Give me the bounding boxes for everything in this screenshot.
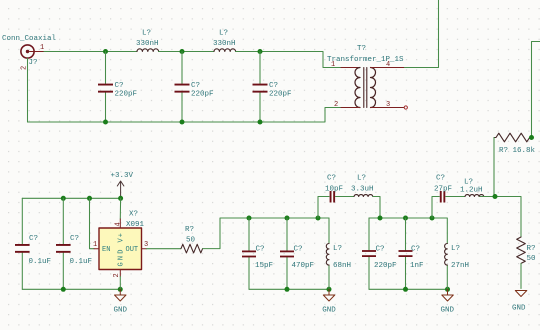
inductor L2 330nH [213, 30, 236, 52]
svg-text:C?: C? [191, 82, 200, 90]
wire L4 down to rail2 [373, 197, 380, 219]
svg-text:3.3uH: 3.3uH [351, 186, 374, 194]
svg-text:L?: L? [333, 245, 342, 253]
wire connector shield down [27, 58, 29, 122]
wire OUT to R3 [147, 248, 181, 250]
capacitor C3 220pF [253, 52, 292, 123]
node top rail junction 3 [258, 49, 263, 54]
ground R4 [512, 291, 527, 313]
svg-text:C?: C? [269, 82, 278, 90]
wire R2 left leg down [493, 138, 495, 197]
wire group1 bottom rail [249, 288, 329, 290]
wire R3 to filter rail [203, 218, 329, 249]
svg-text:J?: J? [29, 59, 38, 67]
series branch2 wire up [432, 197, 439, 219]
node rail2 junction c1n [403, 216, 408, 221]
wire bottom-left rail [22, 288, 120, 290]
wire C11 to L6 [446, 196, 465, 198]
svg-text:50: 50 [186, 237, 196, 245]
svg-text:220pF: 220pF [191, 91, 214, 99]
wire bottom rail top section [28, 108, 342, 123]
svg-text:X091: X091 [126, 221, 145, 229]
wire 3.3V rail [22, 197, 120, 199]
capacitor C4 0.1uF [15, 198, 51, 289]
node group2 bottom junction c1n [403, 287, 408, 292]
wire between inductors [159, 51, 214, 53]
wire rail to transformer corner [236, 52, 341, 68]
svg-text:4: 4 [114, 222, 122, 226]
wire L6 to node [480, 197, 521, 238]
node branch2 output [493, 194, 498, 199]
svg-text:X?: X? [129, 211, 138, 219]
svg-text:1.2uH: 1.2uH [460, 187, 483, 195]
regulator U1 X091 [93, 211, 148, 278]
inductor L6 1.2uH [460, 179, 484, 197]
capacitor C1 220pF [98, 52, 137, 123]
svg-text:330nH: 330nH [136, 40, 159, 48]
svg-text:R? 16.8k: R? 16.8k [499, 147, 536, 155]
node rail1 junction branch [316, 216, 321, 221]
connector J1 Conn_Coaxial [2, 35, 57, 70]
node rail2 junction branch1 [378, 216, 383, 221]
capacitor C9 220pF [362, 218, 397, 289]
node group1 bottom junction l68 [327, 287, 332, 292]
capacitor C8 10pF [325, 175, 343, 203]
wire transformer pin4 to top edge [405, 0, 439, 68]
svg-text:1: 1 [40, 44, 44, 52]
svg-text:T?: T? [357, 45, 366, 53]
svg-text:GND: GND [512, 305, 526, 313]
svg-text:4: 4 [386, 61, 390, 69]
svg-text:GND: GND [441, 307, 455, 315]
svg-text:C?: C? [256, 246, 265, 254]
node rail1 junction c15 [247, 216, 252, 221]
svg-text:1: 1 [93, 241, 97, 249]
svg-text:L?: L? [219, 30, 228, 38]
wire EN feed [90, 198, 95, 248]
svg-text:Transformer_1P_1S: Transformer_1P_1S [327, 56, 404, 64]
svg-text:2: 2 [113, 273, 121, 277]
node bottom-left junction c5 [61, 287, 66, 292]
svg-text:V+: V+ [117, 232, 125, 242]
svg-text:2: 2 [334, 101, 338, 109]
ground chip [114, 289, 128, 314]
svg-text:L?: L? [357, 175, 366, 183]
node bottom rail junction 1 [103, 120, 108, 125]
transformer T1 Transformer_1P_1S [327, 45, 407, 109]
svg-text:220pF: 220pF [374, 262, 397, 270]
svg-text:L?: L? [451, 245, 460, 253]
svg-text:L?: L? [142, 30, 151, 38]
node top rail junction 2 [180, 49, 185, 54]
svg-text:50: 50 [527, 255, 537, 263]
svg-text:C?: C? [327, 175, 336, 183]
svg-text:C?: C? [436, 175, 445, 183]
svg-text:1: 1 [331, 61, 335, 69]
svg-text:27pF: 27pF [434, 186, 452, 194]
svg-text:GND: GND [114, 307, 128, 315]
svg-text:10pF: 10pF [325, 186, 343, 194]
svg-text:0.1uF: 0.1uF [29, 258, 52, 266]
wire connector to rail [44, 51, 137, 53]
svg-text:330nH: 330nH [213, 40, 236, 48]
capacitor C10 1nF [399, 218, 424, 289]
svg-text:68nH: 68nH [333, 262, 351, 270]
node rail1 junction c470 [285, 216, 290, 221]
resistor R4 50 [517, 237, 536, 263]
inductor L4 3.3uH [351, 175, 374, 197]
wire top right entering [532, 42, 540, 138]
node rail2 junction branch2 [430, 216, 435, 221]
wire C8 to L4 [336, 196, 355, 198]
svg-text:R?: R? [185, 226, 194, 234]
power +3.3V [111, 172, 134, 198]
svg-text:1nF: 1nF [410, 262, 424, 270]
node 3.3V rail junction en [87, 196, 92, 201]
svg-text:L?: L? [464, 179, 473, 187]
svg-text:GND: GND [117, 247, 125, 266]
wire group2 bottom rail [369, 288, 448, 290]
wire U1 gnd pin down [119, 277, 121, 290]
node 3.3V rail junction c2 [61, 196, 66, 201]
capacitor C2 220pF [175, 52, 214, 123]
node bottom-left junction gnd [118, 287, 123, 292]
svg-text:+3.3V: +3.3V [111, 172, 134, 180]
svg-text:C?: C? [376, 246, 385, 254]
svg-text:C?: C? [411, 246, 420, 254]
svg-text:C?: C? [294, 246, 303, 254]
capacitor C5 0.1uF [56, 198, 92, 289]
svg-text:27nH: 27nH [451, 262, 469, 270]
series branch1 wire up [318, 197, 329, 219]
svg-text:C?: C? [70, 235, 79, 243]
wire group2 rail [369, 217, 447, 219]
resistor R2 16.8k [494, 133, 536, 155]
inductor L3 68nH [326, 218, 351, 289]
capacitor C6 15pF [242, 218, 273, 289]
wire R4 to gnd [520, 264, 522, 289]
node 3.3V rail junction v+ [118, 196, 123, 201]
node bottom rail junction 3 [258, 120, 263, 125]
svg-text:R?: R? [527, 245, 536, 253]
inductor L1 330nH [136, 30, 159, 52]
svg-text:220pF: 220pF [115, 91, 138, 99]
svg-text:Conn_Coaxial: Conn_Coaxial [2, 35, 57, 43]
svg-text:C?: C? [29, 235, 38, 243]
capacitor C11 27pF [434, 175, 452, 203]
node group2 bottom junction l27 [445, 287, 450, 292]
node bottom rail junction 2 [180, 120, 185, 125]
svg-text:GND: GND [322, 307, 336, 315]
capacitor C7 470pF [280, 218, 314, 289]
svg-text:3: 3 [386, 101, 390, 109]
svg-text:EN: EN [102, 246, 110, 254]
svg-text:15pF: 15pF [255, 262, 273, 270]
svg-text:C?: C? [115, 82, 124, 90]
svg-text:220pF: 220pF [269, 91, 292, 99]
svg-text:0.1uF: 0.1uF [70, 258, 93, 266]
node top rail junction 1 [103, 49, 108, 54]
svg-text:3: 3 [144, 241, 148, 249]
svg-text:470pF: 470pF [292, 262, 315, 270]
resistor R3 50 [181, 226, 203, 253]
svg-text:OUT: OUT [126, 246, 139, 254]
wire V+ feed [119, 198, 121, 219]
node group1 bottom junction c470 [285, 287, 290, 292]
inductor L5 27nH [445, 218, 469, 289]
ground group2 [441, 289, 455, 314]
node R2 right junction [529, 135, 534, 140]
ground group1 [322, 289, 336, 314]
